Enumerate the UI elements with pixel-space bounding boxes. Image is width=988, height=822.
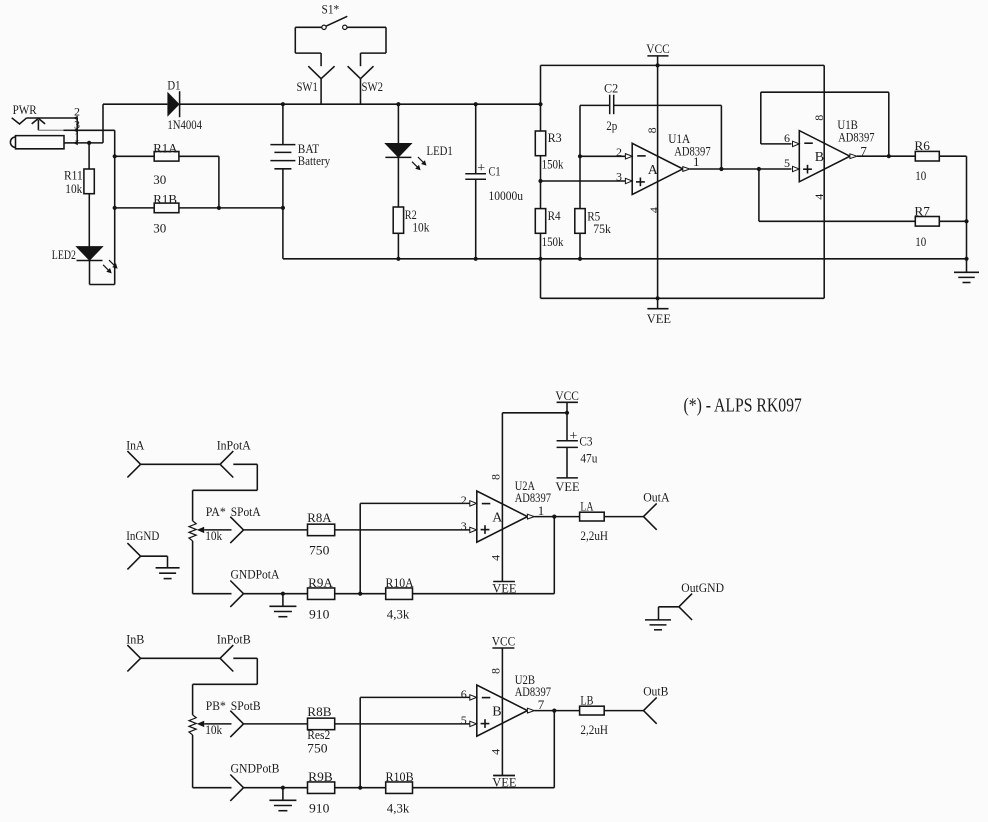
svg-text:6: 6: [784, 131, 790, 145]
svg-text:4: 4: [489, 555, 503, 561]
svg-text:VCC: VCC: [492, 634, 516, 649]
svg-text:PB*: PB*: [206, 698, 226, 713]
svg-text:S1*: S1*: [322, 2, 340, 17]
svg-text:R1B: R1B: [153, 191, 177, 206]
svg-text:2: 2: [461, 493, 467, 507]
svg-text:R10B: R10B: [386, 769, 414, 784]
svg-text:SPotB: SPotB: [231, 698, 261, 713]
svg-text:910: 910: [309, 606, 329, 621]
svg-text:Battery: Battery: [298, 153, 331, 168]
svg-text:InA: InA: [126, 438, 145, 453]
svg-text:2,2uH: 2,2uH: [580, 528, 608, 543]
svg-text:150k: 150k: [542, 234, 564, 249]
svg-text:GNDPotB: GNDPotB: [231, 760, 280, 775]
svg-text:75k: 75k: [593, 221, 611, 236]
svg-text:4,3k: 4,3k: [387, 800, 410, 815]
svg-text:R4: R4: [548, 208, 561, 223]
svg-text:PA*: PA*: [206, 504, 226, 519]
svg-text:LED1: LED1: [427, 143, 453, 158]
svg-text:R7: R7: [914, 204, 930, 219]
svg-text:47u: 47u: [580, 451, 597, 466]
svg-text:+: +: [477, 161, 485, 176]
svg-text:B: B: [492, 705, 501, 720]
svg-text:750: 750: [307, 740, 327, 755]
svg-text:30: 30: [153, 172, 166, 187]
svg-text:InPotB: InPotB: [217, 632, 251, 647]
svg-text:R6: R6: [914, 138, 930, 153]
svg-text:R8A: R8A: [307, 510, 332, 525]
svg-text:8: 8: [812, 115, 826, 121]
svg-text:910: 910: [309, 800, 329, 815]
svg-text:10: 10: [915, 234, 926, 249]
svg-text:SW2: SW2: [362, 79, 384, 94]
svg-text:10k: 10k: [205, 528, 222, 543]
svg-text:+: +: [570, 429, 578, 444]
svg-text:InGND: InGND: [126, 528, 159, 543]
svg-text:R9A: R9A: [308, 575, 333, 590]
svg-text:5: 5: [461, 713, 467, 727]
svg-text:8: 8: [489, 668, 503, 674]
svg-text:SPotA: SPotA: [231, 504, 261, 519]
svg-text:R9B: R9B: [308, 769, 333, 784]
svg-text:R1A: R1A: [153, 140, 178, 155]
svg-text:2,2uH: 2,2uH: [580, 722, 608, 737]
svg-text:1: 1: [693, 154, 700, 169]
svg-text:750: 750: [309, 543, 329, 558]
svg-text:150k: 150k: [542, 156, 564, 171]
svg-text:SW1: SW1: [297, 79, 318, 94]
svg-text:VEE: VEE: [492, 774, 516, 789]
svg-text:VCC: VCC: [555, 388, 579, 403]
svg-text:R3: R3: [548, 130, 562, 145]
svg-text:LB: LB: [580, 693, 593, 708]
svg-text:LED2: LED2: [52, 247, 76, 262]
svg-text:C2: C2: [604, 81, 618, 96]
svg-text:10000u: 10000u: [489, 188, 524, 203]
svg-text:OutA: OutA: [643, 489, 670, 504]
svg-text:2: 2: [616, 145, 622, 159]
svg-text:R10A: R10A: [386, 575, 415, 590]
svg-text:6: 6: [461, 687, 467, 701]
svg-text:AD8397: AD8397: [515, 490, 552, 505]
svg-text:GNDPotA: GNDPotA: [231, 566, 280, 581]
svg-text:PWR: PWR: [13, 102, 37, 117]
svg-text:4: 4: [647, 207, 661, 213]
svg-text:AD8397: AD8397: [515, 684, 552, 699]
svg-text:AD8397: AD8397: [838, 130, 875, 145]
svg-text:OutB: OutB: [643, 683, 668, 698]
svg-text:10k: 10k: [205, 722, 222, 737]
svg-text:4,3k: 4,3k: [387, 606, 410, 621]
svg-text:3: 3: [616, 170, 622, 184]
svg-text:1N4004: 1N4004: [167, 117, 202, 132]
svg-text:B: B: [815, 150, 824, 165]
svg-text:1: 1: [74, 130, 80, 144]
svg-text:10: 10: [915, 168, 926, 183]
svg-text:OutGND: OutGND: [681, 580, 724, 595]
svg-text:8: 8: [489, 474, 503, 480]
svg-text:4: 4: [489, 749, 503, 755]
svg-text:VEE: VEE: [555, 479, 579, 494]
svg-text:3: 3: [461, 519, 467, 533]
svg-text:30: 30: [153, 220, 166, 235]
svg-text:C3: C3: [579, 434, 592, 449]
svg-text:2p: 2p: [606, 118, 617, 133]
svg-text:D1: D1: [167, 78, 180, 93]
svg-text:VEE: VEE: [647, 311, 671, 326]
svg-text:LA: LA: [580, 499, 594, 514]
svg-text:InPotA: InPotA: [217, 438, 252, 453]
svg-text:4: 4: [812, 194, 826, 200]
svg-text:VCC: VCC: [646, 41, 670, 56]
svg-text:(*) - ALPS RK097: (*) - ALPS RK097: [684, 395, 802, 417]
svg-text:10k: 10k: [65, 181, 82, 196]
svg-text:10k: 10k: [412, 219, 429, 234]
svg-text:InB: InB: [126, 632, 145, 647]
svg-text:C1: C1: [489, 163, 501, 178]
svg-text:VEE: VEE: [492, 580, 516, 595]
svg-text:5: 5: [784, 156, 790, 170]
svg-text:R8B: R8B: [307, 704, 332, 719]
